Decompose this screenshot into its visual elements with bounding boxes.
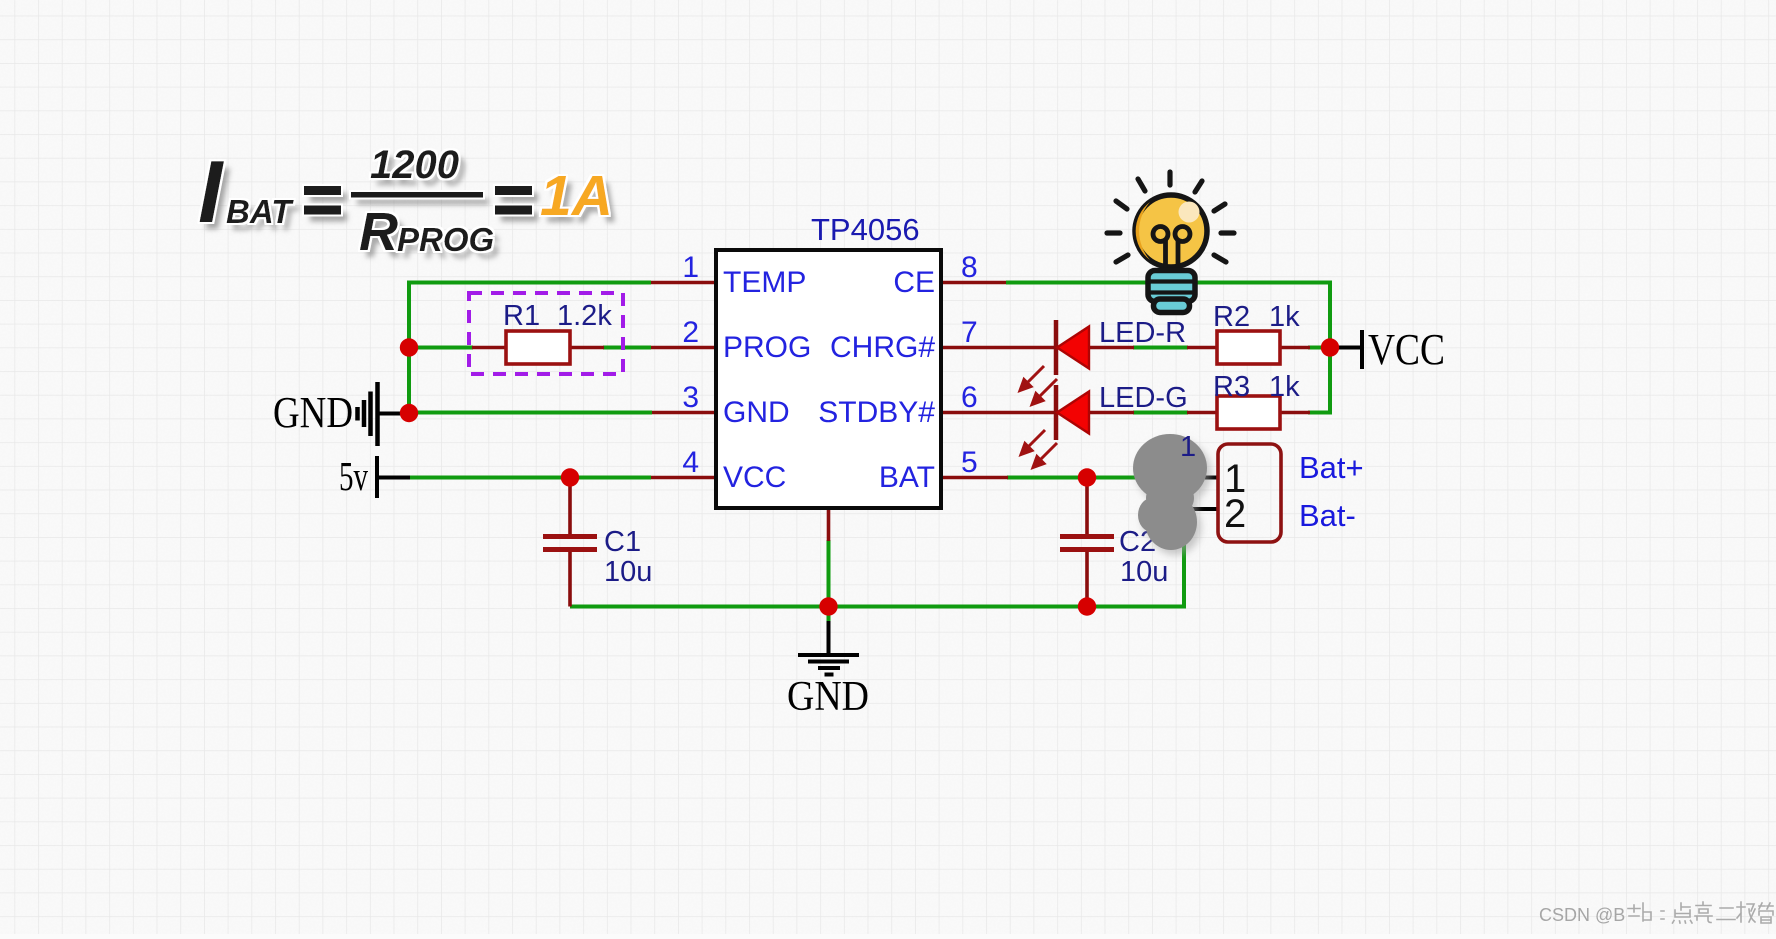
glyph er	[1717, 908, 1735, 920]
svg-text:2: 2	[682, 316, 699, 349]
node BAT/C2 junction	[1078, 468, 1096, 486]
pin2 stub	[651, 346, 716, 350]
wire LED-R to R2	[1133, 346, 1188, 350]
light bulb icon	[1107, 172, 1234, 313]
svg-text:1.2k: 1.2k	[557, 300, 612, 332]
svg-text:1: 1	[1180, 431, 1196, 463]
svg-text:1: 1	[682, 251, 699, 284]
glyph liang	[1695, 902, 1712, 923]
R3 left lead	[1187, 411, 1217, 415]
svg-text:C1: C1	[604, 526, 641, 558]
glyph zhan	[1628, 903, 1651, 921]
svg-text:1A: 1A	[540, 164, 613, 228]
svg-text:VCC: VCC	[1368, 325, 1445, 374]
wire LED-G to R3	[1133, 411, 1188, 415]
svg-text:R: R	[359, 202, 398, 262]
connector pin1 stub	[1205, 476, 1218, 480]
svg-text:10u: 10u	[604, 556, 652, 588]
svg-text:R2: R2	[1213, 301, 1250, 333]
bulb rays	[1107, 172, 1234, 262]
R1 right lead	[570, 346, 604, 350]
svg-text:2: 2	[1224, 492, 1246, 536]
wire pin1 TEMP horizontal	[409, 281, 651, 285]
node PROG junction	[400, 338, 418, 356]
node 5v/C1 junction	[561, 468, 579, 486]
bulb base	[1147, 271, 1196, 313]
R1 left lead	[472, 346, 506, 350]
svg-text:5v: 5v	[339, 453, 368, 499]
wire 5v flag to net	[377, 476, 410, 480]
IC pin names	[723, 266, 935, 494]
svg-text:6: 6	[961, 381, 978, 414]
bottom ground lead	[827, 621, 831, 655]
glyph guan	[1759, 903, 1773, 923]
wire IC ground drop green	[827, 540, 831, 622]
glyph colon	[1661, 911, 1664, 919]
svg-text:R1: R1	[503, 300, 540, 332]
svg-text:3: 3	[682, 381, 699, 414]
bottom earth ground symbol	[798, 655, 859, 675]
wire pin5 BAT to connector	[1007, 476, 1206, 480]
svg-text:BAT: BAT	[879, 461, 935, 494]
node ground bus junction 1	[819, 597, 837, 615]
C2 top lead	[1085, 478, 1089, 537]
5v flag bar	[375, 456, 379, 498]
bulb filament	[1153, 227, 1190, 272]
svg-text:I: I	[198, 142, 224, 241]
formula I_BAT = 1200/R_PROG = 1A	[198, 142, 613, 262]
pin5 stub	[941, 476, 1008, 480]
svg-text:R3: R3	[1213, 371, 1250, 403]
wire left vertical net	[407, 281, 411, 413]
svg-text:4: 4	[682, 446, 699, 479]
node ground bus junction 2	[1078, 597, 1096, 615]
svg-text:TEMP: TEMP	[723, 266, 806, 299]
wire green after R2	[1308, 346, 1332, 350]
pin7 stub to LED-R	[941, 346, 1056, 350]
R2 right lead	[1280, 346, 1310, 350]
battery connector J1	[1218, 444, 1281, 542]
svg-text:1k: 1k	[1269, 371, 1300, 403]
wire Bat- drop	[1182, 509, 1186, 609]
pin8 stub	[941, 281, 1006, 285]
pin1 stub	[651, 281, 716, 285]
C2 bottom lead	[1085, 549, 1089, 607]
svg-text:CHRG#: CHRG#	[830, 331, 935, 364]
svg-text:PROG: PROG	[397, 221, 494, 258]
svg-text:7: 7	[961, 316, 978, 349]
junction dots	[400, 338, 1339, 615]
svg-text:TP4056: TP4056	[811, 212, 920, 247]
LED-G anode lead	[1088, 411, 1134, 415]
wire R1 right to pin2	[603, 346, 651, 350]
node GND junction	[400, 404, 418, 422]
ground GND left flag symbol	[358, 382, 378, 446]
censor blob	[1133, 434, 1207, 550]
black connection wires	[377, 330, 1362, 655]
resistor R1	[506, 331, 570, 364]
svg-text:VCC: VCC	[723, 461, 786, 494]
svg-text:1200: 1200	[370, 143, 459, 187]
R2 left lead	[1187, 346, 1217, 350]
pin3 stub	[652, 411, 716, 415]
wire bottom ground bus	[570, 605, 1184, 609]
node VCC junction	[1321, 338, 1339, 356]
svg-text:LED-R: LED-R	[1099, 317, 1186, 349]
R3 right lead	[1280, 411, 1310, 415]
bulb shade	[1136, 202, 1150, 260]
wire PROG to R1 left	[409, 346, 473, 350]
LED LED-G	[1056, 385, 1089, 440]
wire 5v to pin4	[409, 476, 651, 480]
glyph ji	[1737, 902, 1755, 922]
op IC U1 TP4056 body	[716, 250, 941, 508]
bulb globe	[1135, 195, 1207, 267]
watermark CJK glyphs	[1628, 902, 1773, 923]
wire right vertical VCC net	[1308, 281, 1330, 413]
svg-text:GND: GND	[273, 388, 353, 437]
wire pin3 GND horizontal	[409, 411, 652, 415]
watermark	[1539, 905, 1625, 925]
resistor R3	[1217, 396, 1280, 429]
wire pin8 CE horizontal	[1006, 281, 1330, 285]
LED LED-R	[1056, 320, 1089, 375]
svg-text:Bat-: Bat-	[1299, 498, 1356, 533]
C1 top lead	[568, 478, 572, 537]
svg-text:Bat+: Bat+	[1299, 450, 1364, 485]
resistor R2	[1217, 331, 1280, 364]
bulb highlight	[1179, 202, 1200, 223]
IC pin numbers	[682, 251, 977, 479]
svg-text:LED-G: LED-G	[1099, 382, 1188, 414]
wire node to VCC flag	[1330, 346, 1362, 350]
svg-text:5: 5	[961, 446, 978, 479]
svg-text:CSDN @B: CSDN @B	[1539, 905, 1625, 925]
svg-text:PROG: PROG	[723, 331, 811, 364]
capacitor C2	[1060, 537, 1114, 550]
svg-text:STDBY#: STDBY#	[818, 396, 935, 429]
LED-R light arrows	[1020, 366, 1057, 405]
svg-text:GND: GND	[723, 396, 790, 429]
LED-G light arrows	[1021, 430, 1057, 468]
glyph dian	[1673, 903, 1693, 923]
svg-text:1k: 1k	[1269, 301, 1300, 333]
LED-R anode lead	[1088, 346, 1134, 350]
svg-text:10u: 10u	[1120, 556, 1168, 588]
R1 dashed highlight box	[469, 293, 623, 374]
svg-text:BAT: BAT	[226, 193, 294, 230]
wires green	[409, 281, 1332, 623]
svg-text:8: 8	[961, 251, 978, 284]
pin4 stub	[651, 476, 716, 480]
pin6 stub to LED-G	[941, 411, 1056, 415]
wires dark red pin stubs	[472, 283, 1310, 607]
svg-text:CE: CE	[893, 266, 935, 299]
VCC flag bar	[1360, 330, 1364, 369]
wire GND flag to node	[377, 412, 409, 416]
connector pin2 stub	[1185, 507, 1218, 511]
IC ground stub	[827, 508, 831, 541]
C1 bottom lead	[568, 549, 572, 607]
capacitor C1	[543, 537, 597, 550]
svg-text:GND: GND	[787, 674, 869, 720]
